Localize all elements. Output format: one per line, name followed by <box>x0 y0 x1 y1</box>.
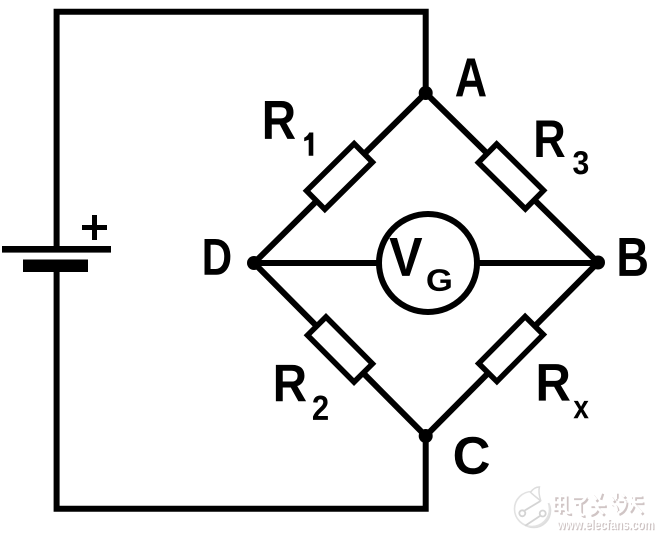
battery B1 negative plate <box>23 260 88 273</box>
wire: node A to node D <box>254 93 426 263</box>
watermark logo circle <box>515 483 557 528</box>
resistor R3 body <box>478 144 543 209</box>
node D junction dot <box>247 256 261 270</box>
wire: battery negative down to bottom rail across to node C <box>57 272 426 509</box>
galvanometer label G subscript <box>427 269 450 291</box>
label R2 subscript 2 <box>313 395 328 419</box>
resistor R1 body <box>307 144 373 210</box>
node label D <box>205 239 231 275</box>
label R2 <box>276 365 306 401</box>
node A junction dot <box>419 86 433 100</box>
galvanometer label V <box>389 238 422 276</box>
node C junction dot <box>419 429 433 443</box>
battery B1 positive plate <box>2 246 111 253</box>
galvanometer VG circle <box>379 214 477 312</box>
wire: node D to node B through galvanometer <box>254 260 598 266</box>
label R3 <box>536 121 565 157</box>
label Rx subscript x <box>573 401 588 418</box>
node label B <box>619 238 647 276</box>
label R1 <box>265 101 295 139</box>
label Rx <box>539 364 570 400</box>
wire: node C to node B <box>426 263 598 437</box>
resistor R2 body <box>308 317 373 382</box>
label R3 subscript 3 <box>573 151 588 174</box>
wire: battery positive up to top rail across to node A <box>57 12 426 247</box>
wire: node A to node B <box>426 93 598 263</box>
node label C <box>455 437 489 475</box>
watermark text www.elecfans.com <box>557 519 655 530</box>
node label A <box>456 59 486 97</box>
resistor Rx body <box>479 317 544 382</box>
node B junction dot <box>591 256 605 270</box>
battery + polarity mark <box>82 215 107 240</box>
label R1 subscript 1 <box>304 133 313 156</box>
watermark text dianzifashaoyou <box>554 492 645 517</box>
wire: node D to node C <box>254 263 426 436</box>
